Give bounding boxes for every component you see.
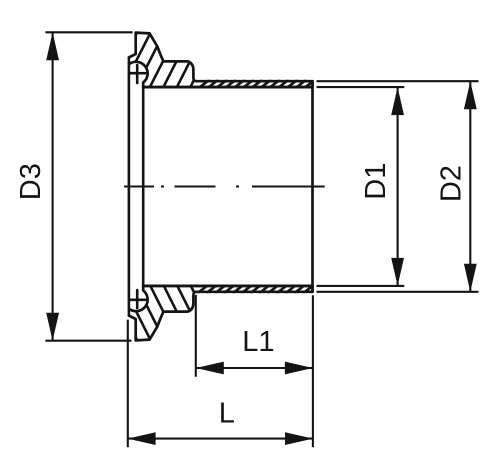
D3 arrow up — [46, 32, 59, 60]
D3 top extension line — [45, 31, 132, 33]
hatch bottom tube wall band — [197, 284, 324, 294]
ferrule bottom flange profile outline — [129, 286, 313, 341]
bore inner wall bottom line — [143, 285, 312, 288]
L1 left extension line — [195, 295, 197, 377]
groove radius center mark top — [130, 65, 146, 83]
L arrow left — [128, 432, 156, 445]
centerline (dash-dot axis) — [124, 185, 325, 187]
L dimension line — [128, 438, 313, 440]
D2 top extension line — [317, 80, 479, 82]
D2 dimension line — [469, 81, 471, 292]
ferrule top flange profile outline — [129, 33, 313, 88]
D3 bottom extension line — [45, 340, 131, 342]
svg-text:D3: D3 — [15, 163, 47, 200]
svg-text:D2: D2 — [435, 165, 467, 202]
D1 bottom extension line — [317, 285, 405, 287]
hatch top tube wall band — [197, 80, 324, 90]
right end extension line for L and L1 — [312, 295, 314, 447]
hatch bottom flange section — [108, 282, 248, 346]
svg-text:D1: D1 — [360, 163, 392, 200]
D3 arrow down — [46, 313, 59, 341]
L left extension line — [127, 320, 129, 448]
svg-text:L: L — [219, 397, 235, 429]
sealing face edge line — [128, 57, 131, 315]
bore recess edge line — [142, 87, 145, 286]
D1 dimension line — [397, 87, 399, 286]
D2 bottom extension line — [317, 291, 479, 293]
bore inner wall top line — [143, 86, 312, 89]
D2 arrow down — [464, 264, 477, 292]
hatch top flange section — [108, 25, 249, 90]
D1 top extension line — [317, 86, 405, 88]
L arrow right — [285, 432, 313, 445]
L1 dimension line — [196, 367, 313, 369]
L1 arrow left — [196, 362, 224, 375]
svg-text:L1: L1 — [242, 326, 274, 358]
D2 arrow up — [464, 81, 477, 109]
D3 dimension line — [52, 32, 54, 340]
groove radius center mark bottom — [130, 290, 146, 308]
L1 arrow right — [285, 362, 313, 375]
D1 arrow up — [391, 87, 404, 115]
tube end face line — [311, 81, 314, 292]
D1 arrow down — [391, 258, 404, 286]
